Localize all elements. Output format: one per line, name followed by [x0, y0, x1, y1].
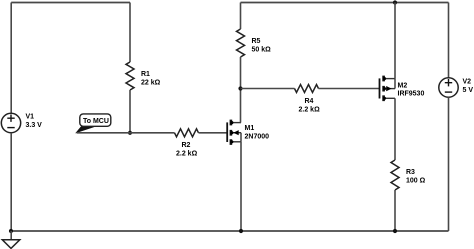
wire right vertical lower	[448, 97, 450, 231]
wire R1 lower lead	[129, 90, 131, 133]
wire R5 lower lead to M1 drain	[240, 57, 242, 123]
wire M2 drain to R3	[394, 98, 396, 160]
wire gate net M1 right	[199, 132, 227, 134]
svg-text:R1: R1	[141, 71, 150, 78]
svg-text:M1: M1	[245, 125, 255, 132]
wire R1 upper lead	[129, 3, 131, 63]
svg-text:22 kΩ: 22 kΩ	[141, 80, 161, 87]
resistor R4	[295, 85, 319, 93]
svg-text:To MCU: To MCU	[83, 118, 109, 125]
svg-text:100 Ω: 100 Ω	[406, 178, 426, 185]
wire gate net M1 left	[77, 132, 175, 134]
wire top-middle rail	[241, 2, 449, 4]
wire R4 left lead	[241, 88, 295, 90]
resistor R1	[126, 62, 134, 90]
wire bottom rail	[11, 230, 448, 232]
flag To MCU pointer	[76, 125, 95, 132]
svg-text:R2: R2	[182, 142, 191, 149]
svg-text:5 V: 5 V	[463, 87, 474, 94]
wire ground stub	[10, 231, 12, 240]
resistor R3	[391, 160, 399, 190]
node R1-R2 junction	[128, 131, 132, 135]
svg-text:50 kΩ: 50 kΩ	[252, 47, 272, 54]
wire R5 upper lead	[240, 3, 242, 30]
node bottom rail M1 junction	[239, 229, 243, 233]
wire right vertical upper	[448, 3, 450, 78]
wire top rail to M2 source	[394, 3, 396, 79]
node top rail M2 junction	[393, 0, 397, 4]
svg-text:V2: V2	[463, 79, 472, 86]
flag To MCU box	[80, 114, 111, 126]
node bottom rail R3 junction	[393, 229, 397, 233]
voltage source V1	[1, 113, 20, 132]
wire R3 lower lead	[394, 190, 396, 231]
wire top-left rail	[11, 2, 130, 4]
wire R4 right lead to M2 gate	[319, 88, 380, 90]
transistor M2	[380, 76, 396, 102]
wire left vertical lower	[10, 133, 12, 231]
transistor M1	[227, 120, 241, 145]
wire M1 source to bottom rail	[240, 142, 242, 231]
node ground junction	[9, 229, 13, 233]
svg-text:3.3 V: 3.3 V	[26, 122, 43, 129]
svg-text:IRF9530: IRF9530	[398, 91, 425, 98]
svg-text:V1: V1	[26, 114, 35, 121]
svg-text:R3: R3	[406, 169, 415, 176]
voltage source V2	[439, 78, 458, 97]
resistor R2	[175, 129, 199, 137]
svg-text:M2: M2	[398, 83, 408, 90]
svg-text:R5: R5	[252, 38, 261, 45]
ground	[2, 240, 20, 249]
svg-text:2.2 kΩ: 2.2 kΩ	[176, 151, 198, 158]
svg-text:2.2 kΩ: 2.2 kΩ	[299, 106, 321, 113]
svg-text:R4: R4	[305, 98, 314, 105]
node R4 branch junction	[238, 86, 242, 90]
resistor R5	[237, 29, 245, 57]
wire left vertical upper	[10, 3, 12, 114]
svg-text:2N7000: 2N7000	[245, 134, 270, 141]
